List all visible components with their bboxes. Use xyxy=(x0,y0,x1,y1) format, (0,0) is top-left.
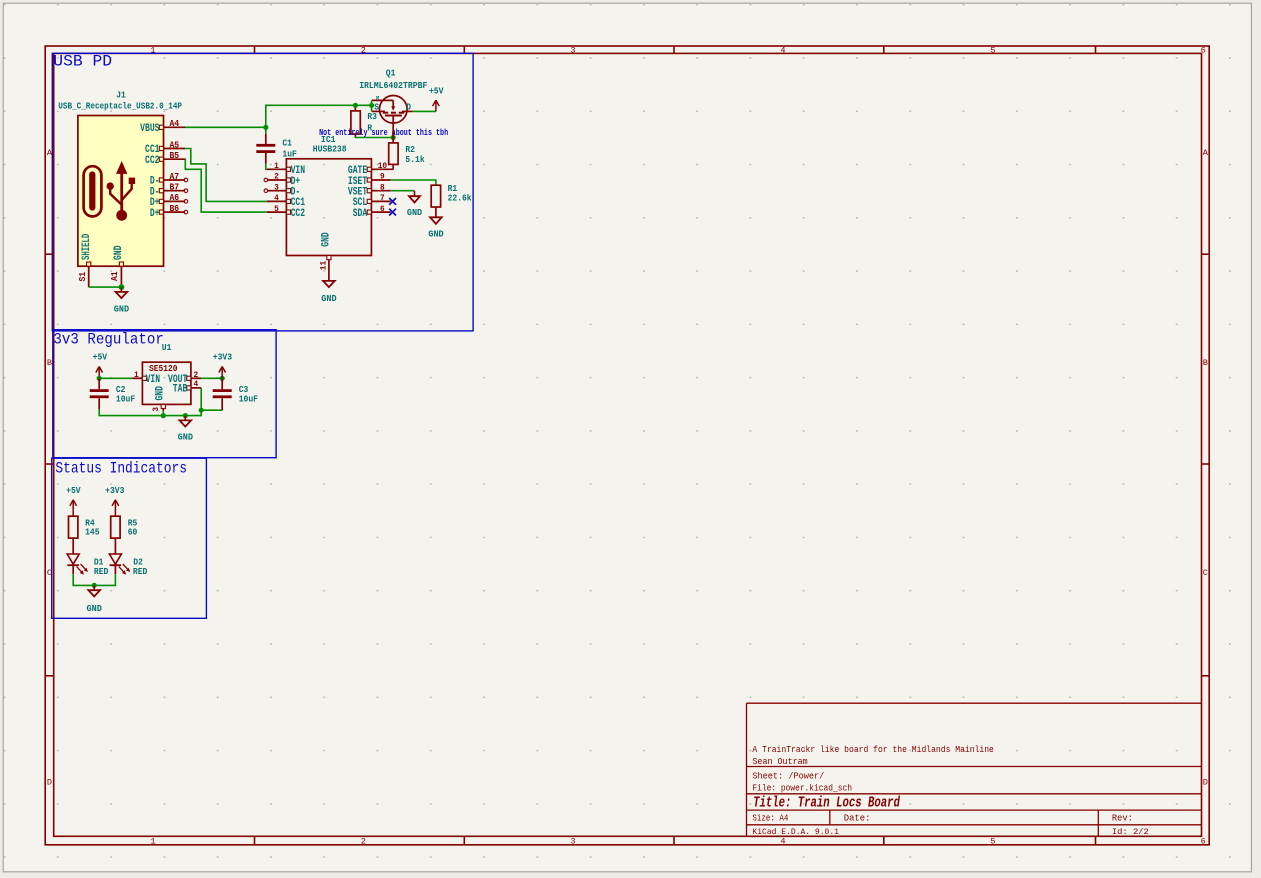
svg-text:1: 1 xyxy=(134,372,139,380)
svg-text:USB_C_Receptacle_USB2.0_14P: USB_C_Receptacle_USB2.0_14P xyxy=(58,100,182,111)
ground symbol under IC1 xyxy=(321,281,337,304)
svg-text:IRLML6402TRPBF: IRLML6402TRPBF xyxy=(359,80,428,91)
J1 pin A6 D+ xyxy=(150,192,188,209)
svg-text:+3V3: +3V3 xyxy=(105,485,125,496)
wire VBUS from J1 to C1 junction xyxy=(185,126,266,128)
J1 pin B7 D- xyxy=(150,182,188,199)
svg-text:GND: GND xyxy=(428,229,444,240)
power symbol +3V3 in regulator section xyxy=(213,352,233,379)
svg-text:SE5120: SE5120 xyxy=(149,363,178,374)
power symbol +5V at Q1 drain xyxy=(429,85,444,111)
svg-text:5: 5 xyxy=(990,836,995,846)
svg-text:4: 4 xyxy=(193,381,198,389)
svg-text:2: 2 xyxy=(361,836,366,846)
svg-text:145: 145 xyxy=(85,526,100,537)
svg-text:8: 8 xyxy=(380,184,385,192)
IC1 pin 6 SDA xyxy=(353,206,391,220)
svg-text:U1: U1 xyxy=(162,342,172,353)
svg-text:Title: Train Locs Board: Title: Train Locs Board xyxy=(753,794,900,811)
svg-text:GND: GND xyxy=(87,603,103,614)
junction at C3 top xyxy=(220,376,225,381)
svg-text:2: 2 xyxy=(274,174,279,182)
IC1 pin 10 GATE xyxy=(348,163,391,177)
capacitor C1 xyxy=(256,127,297,169)
IC1 pin 11 GND xyxy=(320,232,332,281)
power symbol +3V3 in status section xyxy=(105,485,125,516)
svg-text:VBUS: VBUS xyxy=(140,123,160,135)
IC1 pin 9 ISET xyxy=(348,174,391,188)
junction at TAB/C3 corner xyxy=(199,408,204,413)
wire CC2 from J1 to IC1 pin5 xyxy=(185,159,267,212)
svg-text:C: C xyxy=(1203,568,1208,578)
junction at rail ground stem xyxy=(183,413,188,418)
svg-text:6: 6 xyxy=(380,206,385,214)
IC1 pin 8 VSET xyxy=(348,184,391,198)
wire ground rail of regulator xyxy=(99,388,222,416)
svg-text:CC2: CC2 xyxy=(145,155,159,167)
svg-text:A5: A5 xyxy=(169,139,179,150)
svg-text:VIN: VIN xyxy=(146,374,161,386)
svg-text:A1: A1 xyxy=(109,271,120,281)
svg-text:D: D xyxy=(1203,778,1208,788)
junction at Q1 source wire and R3 xyxy=(353,103,358,108)
IC1 pin 3 D- xyxy=(264,184,300,198)
U1 pin 3 GND xyxy=(153,386,166,412)
svg-text:B: B xyxy=(1203,358,1208,368)
ground symbol at VSET xyxy=(407,191,423,218)
capacitor C3 xyxy=(213,378,259,410)
svg-text:1: 1 xyxy=(150,46,155,56)
svg-text:Not entirely sure about this t: Not entirely sure about this tbh xyxy=(319,128,448,138)
svg-text:A7: A7 xyxy=(169,171,179,182)
svg-text:2: 2 xyxy=(361,46,366,56)
svg-text:2: 2 xyxy=(193,372,198,380)
J1 pin A4 VBUS xyxy=(140,118,185,135)
IC1 pin 2 D+ xyxy=(264,174,300,188)
svg-text:5: 5 xyxy=(274,206,279,214)
wire U1 VOUT to +3V3 xyxy=(201,377,222,379)
svg-text:Date:: Date: xyxy=(844,812,871,823)
svg-text:Q1: Q1 xyxy=(386,68,396,79)
svg-text:+3V3: +3V3 xyxy=(213,352,233,363)
regulator U1 SE5120 body xyxy=(142,362,191,404)
svg-text:Size: A4: Size: A4 xyxy=(752,812,788,823)
svg-text:11: 11 xyxy=(320,261,328,271)
svg-text:A6: A6 xyxy=(169,192,179,203)
IC1 pin 1 VIN xyxy=(267,163,305,177)
svg-text:B: B xyxy=(47,358,52,368)
svg-text:RED: RED xyxy=(133,566,148,577)
transistor Q1 P-MOSFET symbol xyxy=(372,95,413,137)
svg-text:4: 4 xyxy=(780,836,785,846)
svg-text:S1: S1 xyxy=(77,272,88,282)
J1 pin A7 D- xyxy=(150,171,188,188)
wire R3 bottom to gate node xyxy=(355,136,393,139)
IC1 pin 4 CC1 xyxy=(267,195,306,209)
svg-text:6: 6 xyxy=(1201,836,1206,846)
wire LED cathodes to ground xyxy=(73,574,115,585)
svg-text:TAB: TAB xyxy=(173,384,188,396)
junction at U1 GND pin on rail xyxy=(161,413,166,418)
junction at Q1 source xyxy=(369,103,374,108)
resistor R5 xyxy=(111,516,138,554)
title block xyxy=(747,703,1202,837)
svg-text:GND: GND xyxy=(407,207,423,218)
wire Q1 source vertical xyxy=(371,100,373,111)
wire J1 shield+gnd to ground xyxy=(89,286,122,288)
svg-text:Sean Outram: Sean Outram xyxy=(752,756,808,767)
capacitor C2 xyxy=(90,378,136,409)
wire +5V to U1 VIN xyxy=(99,377,132,379)
U1 pin 2 VOUT xyxy=(168,372,201,386)
svg-text:A4: A4 xyxy=(169,118,179,129)
svg-text:10: 10 xyxy=(378,163,388,171)
svg-text:Sheet: /Power/: Sheet: /Power/ xyxy=(752,771,824,782)
svg-text:SHIELD: SHIELD xyxy=(81,233,93,260)
svg-text:22.6k: 22.6k xyxy=(448,192,472,203)
IC1 pin 5 CC2 xyxy=(267,206,305,220)
svg-text:Status Indicators: Status Indicators xyxy=(55,460,187,478)
svg-text:+5V: +5V xyxy=(429,85,444,96)
svg-text:File: power.kicad_sch: File: power.kicad_sch xyxy=(752,783,852,794)
svg-text:Id: 2/2: Id: 2/2 xyxy=(1112,827,1149,837)
Status Indicators section box xyxy=(52,458,207,618)
ground symbol of status section xyxy=(93,585,95,590)
svg-text:B5: B5 xyxy=(169,150,179,161)
svg-text:1: 1 xyxy=(150,836,155,846)
svg-text:HUSB238: HUSB238 xyxy=(313,144,347,155)
resistor R1 xyxy=(431,183,472,217)
junction node VBUS at C1 xyxy=(263,125,268,130)
svg-text:60: 60 xyxy=(128,526,138,537)
J1 pin A5 CC1 xyxy=(145,139,185,156)
svg-text:D+: D+ xyxy=(150,208,160,220)
svg-text:+5V: +5V xyxy=(66,485,81,496)
svg-text:GND: GND xyxy=(154,386,166,401)
svg-text:GND: GND xyxy=(178,432,194,443)
LED D2 xyxy=(109,554,147,577)
svg-text:GND: GND xyxy=(113,245,125,260)
svg-text:10uF: 10uF xyxy=(239,393,259,404)
U1 pin 4 TAB xyxy=(173,381,201,396)
J1 pin S1 SHIELD xyxy=(77,233,93,287)
svg-text:5.1k: 5.1k xyxy=(405,154,425,165)
junction at C2 top xyxy=(97,376,102,381)
J1 pin B5 CC2 xyxy=(145,150,185,167)
svg-text:SDA: SDA xyxy=(353,208,368,220)
svg-text:7: 7 xyxy=(380,195,385,203)
svg-text:B7: B7 xyxy=(169,182,179,193)
wire CC1 from J1 to IC1 pin4 xyxy=(185,149,267,202)
svg-text:GND: GND xyxy=(320,232,332,247)
svg-text:3: 3 xyxy=(570,836,575,846)
svg-text:3: 3 xyxy=(570,46,575,56)
svg-text:3: 3 xyxy=(274,184,279,192)
power symbol +5V in status section xyxy=(66,485,81,516)
svg-text:CC2: CC2 xyxy=(291,208,305,220)
svg-text:1: 1 xyxy=(274,163,279,171)
svg-text:KiCad E.D.A. 9.0.1: KiCad E.D.A. 9.0.1 xyxy=(752,827,839,837)
svg-text:4: 4 xyxy=(780,46,785,56)
svg-text:C1: C1 xyxy=(282,137,292,148)
svg-text:GND: GND xyxy=(114,303,130,314)
svg-text:+5V: +5V xyxy=(93,352,108,363)
svg-text:A TrainTrackr like board for t: A TrainTrackr like board for the Midland… xyxy=(752,744,994,755)
wire VSET to ground xyxy=(391,190,415,192)
power symbol +5V in regulator section xyxy=(93,352,108,379)
U1 pin 1 VIN xyxy=(132,372,160,386)
3v3 Regulator section box xyxy=(53,330,276,458)
resistor R2 xyxy=(389,138,425,170)
svg-text:3: 3 xyxy=(153,407,161,412)
USB PD section box xyxy=(52,53,473,331)
J1 pin B6 D+ xyxy=(150,203,188,220)
svg-text:RED: RED xyxy=(94,566,109,577)
IC IC1 HUSB238 body xyxy=(286,159,371,256)
resistor R3 xyxy=(351,105,377,137)
svg-text:Rev:: Rev: xyxy=(1112,812,1133,823)
wire Q1 drain to +5V xyxy=(412,110,436,112)
IC1 pin 7 SCL xyxy=(353,195,391,209)
ground symbol of regulator section xyxy=(184,416,186,421)
svg-text:A: A xyxy=(1203,148,1209,158)
svg-text:GND: GND xyxy=(321,293,337,304)
svg-text:10uF: 10uF xyxy=(116,393,136,404)
no-connect X on SDA xyxy=(389,209,396,216)
connector J1 USB_C_Receptacle_USB2.0_14P body xyxy=(78,116,164,267)
junction at J1 ground xyxy=(119,284,125,290)
wire VBUS up and over to Q1 source xyxy=(266,105,372,127)
svg-text:3v3 Regulator: 3v3 Regulator xyxy=(53,331,163,349)
svg-text:4: 4 xyxy=(274,195,279,203)
resistor R4 xyxy=(69,516,100,554)
svg-text:USB PD: USB PD xyxy=(53,53,112,71)
no-connect X on SCL xyxy=(389,198,396,205)
ground symbol under J1 xyxy=(120,287,122,292)
svg-text:6: 6 xyxy=(1201,46,1206,56)
ground symbol under R1 xyxy=(428,217,444,239)
svg-text:5: 5 xyxy=(990,46,995,56)
svg-text:9: 9 xyxy=(380,174,385,182)
svg-text:J1: J1 xyxy=(116,90,126,101)
svg-text:D: D xyxy=(47,778,52,788)
junction at gate node xyxy=(391,135,396,140)
svg-text:B6: B6 xyxy=(169,203,179,214)
wire ISET to R1 xyxy=(391,180,436,185)
J1 pin A1 GND xyxy=(109,245,125,287)
junction at status ground xyxy=(92,583,97,588)
LED D1 xyxy=(67,554,109,577)
